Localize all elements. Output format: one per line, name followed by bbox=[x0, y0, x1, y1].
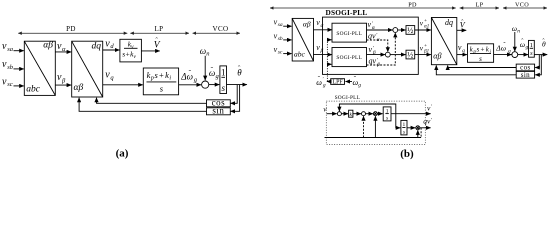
svg-text:SOGI-PLL: SOGI-PLL bbox=[336, 55, 362, 61]
svg-text:α: α bbox=[321, 23, 324, 29]
svg-text:dq: dq bbox=[445, 18, 453, 27]
svg-text:dq: dq bbox=[92, 42, 102, 52]
svg-text:sc: sc bbox=[278, 50, 283, 56]
svg-text:ω: ω bbox=[512, 24, 517, 33]
svg-text:qv: qv bbox=[369, 57, 377, 66]
svg-text:αβ: αβ bbox=[74, 83, 84, 93]
svg-text:s+kv: s+kv bbox=[122, 50, 136, 60]
svg-text:g: g bbox=[526, 45, 529, 51]
svg-text:s: s bbox=[479, 55, 482, 63]
svg-text:g: g bbox=[216, 73, 220, 80]
svg-text:VCO: VCO bbox=[213, 25, 229, 33]
svg-text:kps+ki: kps+ki bbox=[147, 70, 172, 82]
svg-text:DSOGI-PLL: DSOGI-PLL bbox=[326, 8, 368, 17]
svg-text:+: + bbox=[424, 19, 427, 24]
svg-text:β1: β1 bbox=[423, 50, 429, 55]
svg-text:abc: abc bbox=[294, 49, 306, 58]
svg-text:sb: sb bbox=[278, 36, 283, 42]
svg-text:α1: α1 bbox=[424, 25, 429, 30]
svg-text:sb: sb bbox=[7, 64, 14, 71]
svg-text:s: s bbox=[160, 84, 164, 94]
svg-text:sin: sin bbox=[212, 106, 224, 116]
svg-text:s: s bbox=[530, 50, 533, 57]
svg-text:SOGI-PLL: SOGI-PLL bbox=[336, 31, 362, 37]
svg-text:β: β bbox=[372, 50, 376, 56]
svg-text:VCO: VCO bbox=[515, 2, 529, 9]
svg-text:+: + bbox=[424, 44, 427, 49]
svg-text:d: d bbox=[110, 43, 114, 50]
svg-text:(a): (a) bbox=[116, 147, 129, 159]
svg-text:′: ′ bbox=[431, 104, 432, 110]
svg-text:1: 1 bbox=[530, 42, 533, 49]
svg-text:½: ½ bbox=[407, 26, 413, 35]
svg-text:′: ′ bbox=[431, 117, 432, 123]
svg-text:sin: sin bbox=[521, 71, 530, 79]
svg-text:s: s bbox=[386, 116, 388, 122]
svg-text:sc: sc bbox=[7, 81, 13, 88]
svg-text:β: β bbox=[320, 48, 324, 54]
svg-text:PD: PD bbox=[408, 2, 417, 9]
svg-text:g: g bbox=[194, 76, 198, 83]
svg-text:qv: qv bbox=[423, 117, 431, 126]
svg-text:qv: qv bbox=[368, 32, 376, 41]
svg-text:LP: LP bbox=[476, 2, 484, 9]
svg-text:s: s bbox=[221, 83, 225, 93]
svg-text:αβ: αβ bbox=[43, 41, 53, 51]
svg-text:g: g bbox=[358, 83, 361, 89]
svg-text:s: s bbox=[403, 130, 405, 136]
svg-text:sa: sa bbox=[278, 22, 283, 28]
svg-text:sa: sa bbox=[7, 46, 13, 53]
svg-text:q: q bbox=[462, 48, 465, 54]
svg-text:q: q bbox=[110, 75, 114, 82]
svg-text:n: n bbox=[517, 29, 520, 35]
svg-text:αβ: αβ bbox=[433, 52, 441, 61]
svg-text:SOGI-PLL: SOGI-PLL bbox=[335, 95, 361, 101]
svg-text:g: g bbox=[323, 83, 326, 89]
svg-text:abc: abc bbox=[26, 85, 41, 95]
svg-text:n: n bbox=[206, 51, 209, 58]
svg-text:½: ½ bbox=[407, 51, 413, 60]
svg-text:β: β bbox=[61, 77, 66, 84]
svg-text:αβ: αβ bbox=[303, 19, 311, 28]
svg-text:LPF: LPF bbox=[332, 80, 343, 86]
svg-text:1: 1 bbox=[221, 67, 226, 77]
svg-text:PD: PD bbox=[66, 25, 76, 33]
svg-text:g: g bbox=[508, 48, 511, 54]
svg-text:(b): (b) bbox=[400, 148, 414, 160]
svg-text:LP: LP bbox=[155, 25, 164, 33]
